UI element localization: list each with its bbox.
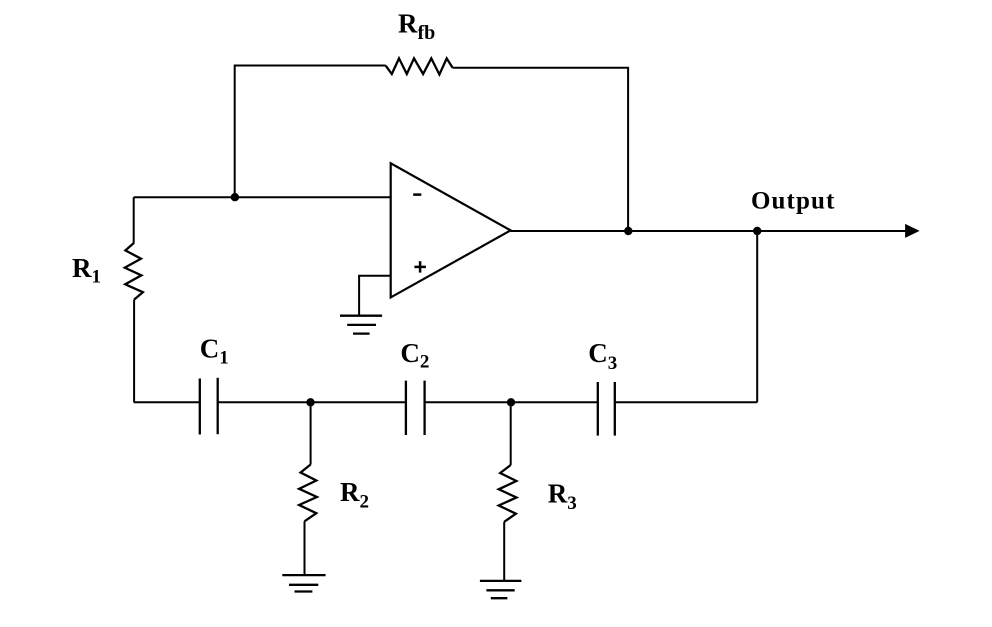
resistor Rfb [386, 58, 453, 74]
svg-text:R1: R1 [72, 253, 101, 288]
wire: bottom line, R1 to C1 [134, 401, 200, 403]
node: output branch junction [753, 227, 761, 235]
wire: R3 top lead [510, 402, 512, 465]
node B: C2-C3-R3 junction [507, 398, 515, 406]
wire: R1 bottom lead [133, 300, 135, 403]
node A: C1-C2-R2 junction [306, 398, 314, 406]
wire: node A to C2 [311, 401, 406, 403]
svg-text:Output: Output [751, 188, 835, 215]
node: feedback/output junction [624, 227, 632, 235]
svg-text:R2: R2 [340, 477, 369, 512]
resistor R1 [125, 243, 143, 300]
capacitor C2 [406, 381, 425, 435]
svg-text:C1: C1 [200, 334, 229, 369]
svg-text:C2: C2 [400, 338, 429, 373]
wire: C2 to node B [425, 401, 511, 403]
resistor R2 [299, 465, 317, 522]
op-amp U1 [391, 163, 511, 297]
wire: R3 bottom lead [503, 522, 505, 580]
wire: inverting input horizontal [134, 196, 391, 198]
svg-text:C3: C3 [588, 338, 617, 374]
wire: feedback top right segment + right vertical [453, 68, 628, 231]
capacitor C1 [200, 378, 218, 435]
resistor R3 [499, 465, 517, 522]
ground: below R2 [282, 575, 325, 591]
wire: non-inverting input to ground [359, 276, 391, 316]
svg-text:R3: R3 [548, 479, 577, 514]
wire: R1 top lead [133, 197, 135, 243]
svg-text:Rfb: Rfb [398, 9, 435, 44]
wire: op-amp output to arrow [511, 230, 906, 232]
wire: feedback left vertical + top segment [235, 66, 386, 198]
node: inverting input junction [231, 193, 239, 201]
capacitor C3 [598, 382, 615, 436]
wire: C3 to output branch [615, 401, 757, 403]
wire: R2 bottom lead [304, 521, 306, 574]
ground: below R3 [480, 581, 522, 598]
wire: C1 to node A [218, 401, 311, 403]
wire: node B to C3 [511, 401, 598, 403]
wire: output branch vertical [756, 231, 758, 402]
ground: op-amp non-inverting input [340, 316, 382, 334]
output arrow head [905, 224, 920, 238]
wire: R2 top lead [310, 402, 312, 464]
